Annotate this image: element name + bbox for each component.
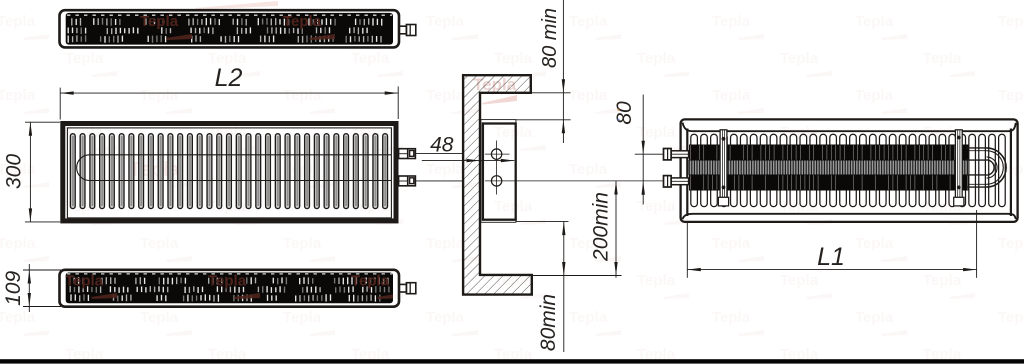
svg-text:Tepla: Tepla xyxy=(998,235,1024,252)
dimension 80 (pipe spacing) xyxy=(642,95,644,205)
bottom border bar xyxy=(0,359,1024,363)
svg-text:109: 109 xyxy=(2,271,25,306)
heating element fin band xyxy=(689,160,969,175)
svg-text:Tepla: Tepla xyxy=(780,50,819,67)
dimension 80 min (top) xyxy=(531,92,571,94)
svg-text:Tepla: Tepla xyxy=(494,50,533,67)
wall niche section (hatched) xyxy=(463,75,532,294)
svg-text:48: 48 xyxy=(430,134,454,157)
small blue logo fragment xyxy=(617,109,619,111)
dimension 200min xyxy=(532,275,622,277)
watermark on bottom view xyxy=(65,273,403,300)
svg-text:Tepla: Tepla xyxy=(637,50,676,67)
bottom view casing xyxy=(60,270,400,307)
radiator pipes (circles) xyxy=(491,149,501,159)
dimension 48 xyxy=(422,160,515,162)
dimension 300 xyxy=(25,121,60,123)
svg-text:Tepla: Tepla xyxy=(712,235,751,252)
bottom view grille (black) xyxy=(66,273,393,304)
top view connector pipe xyxy=(399,26,407,34)
svg-text:Tepla: Tepla xyxy=(494,198,533,215)
svg-text:Tepla: Tepla xyxy=(351,50,390,67)
svg-text:Tepla: Tepla xyxy=(712,13,751,30)
svg-text:Tepla: Tepla xyxy=(569,13,608,30)
svg-text:Tepla: Tepla xyxy=(569,161,608,178)
top view grille (black) xyxy=(66,13,393,45)
svg-text:Tepla: Tepla xyxy=(283,87,322,104)
svg-text:Tepla: Tepla xyxy=(208,273,247,290)
front view connector pipes xyxy=(399,149,416,159)
tube U-bend xyxy=(987,148,1007,187)
pipe centre lines xyxy=(496,141,498,195)
right view casing inner lines xyxy=(683,123,1016,132)
svg-text:Tepla: Tepla xyxy=(855,309,894,326)
svg-text:Tepla: Tepla xyxy=(283,235,322,252)
svg-text:Tepla: Tepla xyxy=(855,87,894,104)
svg-text:Tepla: Tepla xyxy=(65,273,104,290)
svg-text:300: 300 xyxy=(3,154,26,189)
svg-text:Tepla: Tepla xyxy=(283,13,322,30)
top view connector nut xyxy=(406,25,415,36)
svg-text:Tepla: Tepla xyxy=(426,235,465,252)
svg-text:Tepla: Tepla xyxy=(426,87,465,104)
svg-text:Tepla: Tepla xyxy=(998,309,1024,326)
svg-text:Tepla: Tepla xyxy=(855,235,894,252)
front view heating tube lines xyxy=(90,154,392,156)
top view grille white ticks xyxy=(68,18,382,43)
dimension L1 xyxy=(686,223,688,278)
heating element top tube xyxy=(689,145,969,161)
tube ends before U-bend xyxy=(966,147,987,149)
svg-text:Tepla: Tepla xyxy=(569,87,608,104)
svg-text:Tepla: Tepla xyxy=(712,87,751,104)
bottom view connector nut xyxy=(406,283,415,294)
dimension L2 xyxy=(59,88,61,120)
left mounting bracket xyxy=(720,130,727,202)
svg-text:Tepla: Tepla xyxy=(0,13,36,30)
svg-text:L1: L1 xyxy=(817,243,845,271)
svg-text:200min: 200min xyxy=(590,192,613,262)
svg-text:Tepla: Tepla xyxy=(998,87,1024,104)
right view inlet pipes xyxy=(671,151,689,158)
svg-text:Tepla: Tepla xyxy=(283,309,322,326)
right view grille slots xyxy=(691,134,698,206)
svg-text:Tepla: Tepla xyxy=(780,272,819,289)
svg-text:Tepla: Tepla xyxy=(0,235,36,252)
right view casing xyxy=(681,119,1018,221)
right mounting bracket xyxy=(955,130,962,202)
svg-text:Tepla: Tepla xyxy=(0,309,36,326)
svg-text:Tepla: Tepla xyxy=(637,272,676,289)
svg-text:Tepla: Tepla xyxy=(140,87,179,104)
svg-text:Tepla: Tepla xyxy=(140,13,179,30)
svg-text:80min: 80min xyxy=(537,294,560,351)
svg-text:Tepla: Tepla xyxy=(855,13,894,30)
top view casing xyxy=(60,10,400,47)
dimension 80min (bottom) xyxy=(516,221,569,223)
radiator side profile in niche xyxy=(481,120,516,223)
svg-text:Tepla: Tepla xyxy=(140,309,179,326)
front view tube U-bend xyxy=(77,155,90,181)
svg-text:Tepla: Tepla xyxy=(494,124,533,141)
svg-text:Tepla: Tepla xyxy=(140,235,179,252)
svg-text:80: 80 xyxy=(613,101,636,125)
heating element bottom tube xyxy=(689,175,969,191)
svg-text:Tepla: Tepla xyxy=(0,87,36,104)
svg-text:Tepla: Tepla xyxy=(65,50,104,67)
watermark on top view xyxy=(140,13,335,40)
svg-text:Tepla: Tepla xyxy=(712,309,751,326)
svg-text:80 min: 80 min xyxy=(539,8,561,68)
svg-text:Tepla: Tepla xyxy=(923,50,962,67)
svg-text:Tepla: Tepla xyxy=(998,13,1024,30)
front view inner outline xyxy=(67,128,391,218)
bottom view grille white ticks xyxy=(70,277,389,302)
svg-text:Tepla: Tepla xyxy=(923,272,962,289)
svg-text:Tepla: Tepla xyxy=(426,309,465,326)
dimension 109 xyxy=(23,269,61,271)
bottom view connector pipe xyxy=(399,284,407,292)
svg-text:Tepla: Tepla xyxy=(780,124,819,141)
front view grille fins xyxy=(70,134,75,209)
svg-text:Tepla: Tepla xyxy=(351,273,390,290)
svg-text:Tepla: Tepla xyxy=(426,161,465,178)
svg-text:Tepla: Tepla xyxy=(426,13,465,30)
svg-text:L2: L2 xyxy=(215,64,243,92)
svg-text:Tepla: Tepla xyxy=(569,309,608,326)
front view outer frame xyxy=(63,124,396,221)
